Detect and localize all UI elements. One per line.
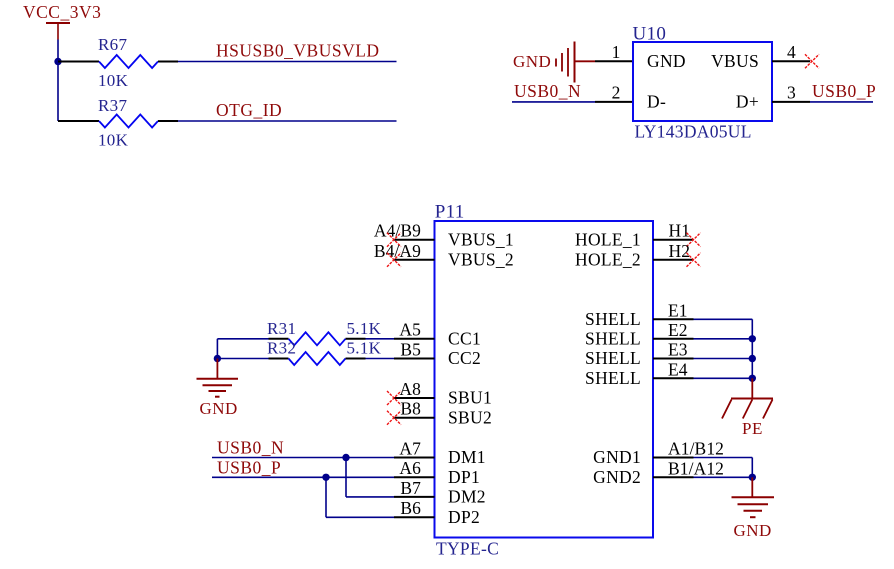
svg-text:GND: GND [200,399,238,418]
wire GND bus vertical [751,458,753,478]
wire R31 to pin A5 [366,338,395,340]
svg-text:DM1: DM1 [448,447,486,467]
svg-text:TYPE-C: TYPE-C [436,539,499,559]
junction E3 [749,355,756,362]
svg-text:R37: R37 [98,96,127,115]
P11 pin B7 [394,478,435,498]
ground GND earth symbol (bottom right) [732,477,775,540]
no-connect X on pin B4/A9 [387,253,401,267]
svg-text:R67: R67 [98,35,127,54]
P11 pin B5 [394,339,435,359]
svg-text:GND: GND [647,51,686,71]
U10 pin 4 [772,42,810,62]
junction E4 [749,375,756,382]
U10 pin 2 [595,83,633,103]
wire USB0_N branch vertical [345,458,347,497]
wire CC vertical [216,339,218,359]
svg-text:PE: PE [742,419,763,438]
svg-text:10K: 10K [98,131,129,150]
P11 pin E4 [653,359,694,379]
resistor R31 [267,319,382,346]
P11 pin A6 [394,458,435,478]
svg-text:B1/A12: B1/A12 [668,458,724,478]
svg-text:VBUS: VBUS [711,51,759,71]
no-connect X on pin H2 [687,253,701,267]
wire VCC_3V3 vertical bus [57,40,59,122]
wire R32 to pin B5 [366,358,395,360]
svg-text:CC1: CC1 [448,329,481,349]
P11 pin names right column [575,229,641,487]
P11 pin A8 [394,379,435,399]
svg-text:SHELL: SHELL [585,329,641,349]
svg-text:USB0_N: USB0_N [514,81,581,101]
svg-text:P11: P11 [435,202,465,223]
junction at R67 row [54,58,61,65]
P11 pin A5 [394,320,435,340]
svg-text:E3: E3 [668,340,688,360]
svg-text:DM2: DM2 [448,487,486,507]
svg-text:SBU1: SBU1 [448,388,492,408]
junction E2 [749,335,756,342]
P11 pin B8 [394,399,435,419]
wire USB0_N to DM1 [212,457,394,459]
svg-text:HSUSB0_VBUSVLD: HSUSB0_VBUSVLD [216,41,380,61]
wire CC2 row [217,358,268,360]
P11 pin H2 [653,241,694,261]
wire E3 to shell bus [694,358,753,360]
P11 pin B6 [394,498,435,518]
resistor R1 R67 [58,35,178,90]
P11 pin E2 [653,320,694,340]
wire USB0_N (top) [512,101,595,103]
svg-text:OTG_ID: OTG_ID [216,100,282,120]
U10 pin 3 [772,83,810,103]
svg-text:SHELL: SHELL [585,368,641,388]
junction USB0_P branch [322,474,329,481]
svg-text:LY143DA05UL: LY143DA05UL [635,122,752,142]
svg-text:H1: H1 [669,221,691,241]
svg-text:4: 4 [787,42,796,62]
svg-text:10K: 10K [98,71,129,90]
no-connect X on pin A4/B9 [387,233,401,247]
wire CC1 row [217,338,268,340]
resistor R37 [58,96,178,150]
resistor R32 [267,339,382,366]
svg-text:B7: B7 [400,478,421,498]
svg-text:E4: E4 [668,359,688,379]
wire USB0_P branch to DP2 [326,516,394,518]
svg-text:D+: D+ [736,91,759,111]
svg-text:1: 1 [612,42,621,62]
svg-text:GND: GND [734,521,772,540]
wire shell bus vertical [751,319,753,378]
IC U10 body [633,24,773,142]
svg-text:2: 2 [612,83,621,103]
svg-text:HOLE_2: HOLE_2 [575,250,641,270]
svg-text:E1: E1 [668,300,688,320]
wire HSUSB0_VBUSVLD [178,61,397,63]
svg-text:VCC_3V3: VCC_3V3 [23,2,101,22]
P11 pin names left column [448,229,514,527]
svg-text:GND2: GND2 [593,467,641,487]
P11 pin A7 [394,438,435,458]
P11 pin B1/A12 [653,458,724,478]
svg-text:A1/B12: A1/B12 [668,439,724,459]
P11 pin A1/B12 [653,439,724,459]
svg-text:A4/B9: A4/B9 [374,221,421,241]
svg-text:B6: B6 [400,498,421,518]
svg-text:A6: A6 [399,458,421,478]
connector P11 body [435,202,654,559]
no-connect X on pin H1 [687,233,701,247]
svg-text:U10: U10 [633,24,667,45]
svg-text:SBU2: SBU2 [448,407,492,427]
wire OTG_ID [178,120,397,122]
svg-text:E2: E2 [668,320,688,340]
earth PE symbol [722,378,773,438]
svg-text:SHELL: SHELL [585,348,641,368]
svg-text:3: 3 [787,83,796,103]
wire USB0_P to DP1 [212,476,394,478]
svg-text:A5: A5 [399,320,421,340]
svg-text:VBUS_2: VBUS_2 [448,250,514,270]
svg-text:HOLE_1: HOLE_1 [575,229,641,249]
svg-text:5.1K: 5.1K [347,319,382,338]
junction USB0_N branch [342,454,349,461]
svg-text:B4/A9: B4/A9 [374,241,421,261]
wire E2 to shell bus [694,338,753,340]
ground GND earth symbol (below CC resistors) [197,359,239,419]
wire USB0_P (top) [810,101,873,103]
svg-text:VBUS_1: VBUS_1 [448,229,514,249]
wire GND2 row [694,476,753,478]
junction GND2 [749,474,756,481]
wire GND1 row [694,457,753,459]
wire E4 to shell bus [694,377,753,379]
P11 pin B4/A9 [374,241,435,261]
no-connect X on pin A8 [387,391,401,405]
svg-text:A8: A8 [399,379,421,399]
P11 pin E3 [653,340,694,360]
svg-text:GND1: GND1 [593,447,641,467]
svg-text:5.1K: 5.1K [347,339,382,358]
no-connect X on pin B8 [387,411,401,425]
svg-text:D-: D- [647,91,666,111]
ground GND power symbol (left of U10) [513,42,595,83]
no-connect X on U10 pin 4 [805,54,819,68]
svg-text:R32: R32 [267,339,296,358]
P11 pin H1 [653,221,694,241]
wire USB0_N branch to DM2 [346,496,394,498]
svg-text:DP2: DP2 [448,507,480,527]
svg-text:CC2: CC2 [448,348,481,368]
svg-text:USB0_N: USB0_N [217,438,284,458]
svg-text:H2: H2 [669,241,691,261]
svg-text:SHELL: SHELL [585,309,641,329]
svg-text:USB0_P: USB0_P [217,457,281,477]
svg-text:B8: B8 [400,399,421,419]
wire USB0_P branch vertical [325,477,327,517]
svg-text:B5: B5 [400,339,421,359]
P11 pin E1 [653,300,694,320]
junction CC2/GND [214,355,221,362]
svg-text:DP1: DP1 [448,467,480,487]
power flag VCC_3V3 [23,2,101,40]
U10 pin 1 [595,42,633,62]
svg-text:USB0_P: USB0_P [812,81,876,101]
svg-text:A7: A7 [399,438,421,458]
svg-text:GND: GND [513,52,551,71]
P11 pin A4/B9 [374,221,435,241]
svg-text:R31: R31 [267,319,296,338]
wire E1 to shell bus [694,318,753,320]
